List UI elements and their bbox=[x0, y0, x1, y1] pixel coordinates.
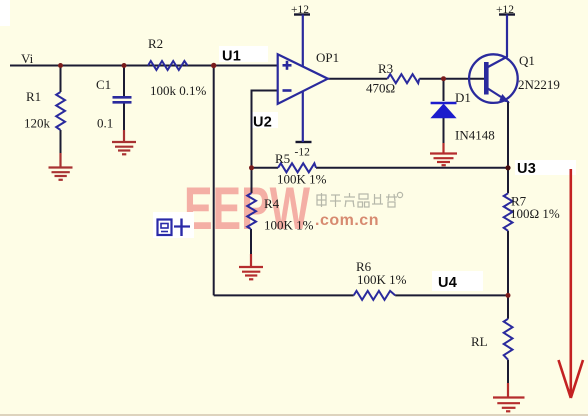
junction C1 bbox=[122, 63, 127, 68]
wire U3 to R7 bbox=[507, 168, 509, 194]
wire op-amp inverting input bbox=[252, 91, 279, 169]
wire R3 to Q1 base bbox=[419, 78, 486, 80]
caption 图十 bbox=[158, 219, 191, 237]
wire D1 to ground bbox=[443, 118, 445, 146]
wire R5 to U3 bbox=[316, 167, 508, 169]
junction node U4 bbox=[506, 293, 511, 298]
svg-text:U1: U1 bbox=[222, 49, 241, 65]
wire op-amp output to R3 bbox=[328, 78, 388, 80]
watermark chinese text 电子产品世界 bbox=[317, 192, 403, 207]
white patch behind U4 bbox=[432, 271, 483, 291]
svg-text:R1: R1 bbox=[26, 89, 41, 104]
svg-text:U4: U4 bbox=[438, 275, 457, 291]
wire R7 to U4 junction bbox=[507, 231, 509, 296]
transistor Q1 bbox=[469, 53, 560, 103]
svg-text:470Ω: 470Ω bbox=[366, 81, 395, 96]
wire Vi input horizontal bbox=[10, 65, 278, 67]
junction D1/R3 bbox=[441, 76, 446, 81]
junction node U1 bbox=[211, 63, 216, 68]
svg-text:Q1: Q1 bbox=[519, 53, 535, 68]
capacitor C1 bbox=[96, 77, 132, 131]
svg-text:2N2219: 2N2219 bbox=[518, 77, 560, 92]
svg-text:0.1: 0.1 bbox=[97, 116, 113, 131]
svg-text:100k 0.1%: 100k 0.1% bbox=[150, 83, 207, 98]
wire RL to ground bbox=[507, 360, 509, 385]
svg-text:Vi: Vi bbox=[21, 51, 34, 66]
svg-text:IN4148: IN4148 bbox=[455, 128, 495, 143]
white patch top-left corner bbox=[0, 0, 10, 26]
wire D1 anode stub bbox=[443, 79, 445, 101]
svg-text:D1: D1 bbox=[455, 90, 471, 105]
power +12 op-amp bbox=[291, 4, 310, 66]
white patch behind U3 bbox=[515, 160, 576, 175]
white patch behind U2 bbox=[252, 112, 278, 128]
svg-text:R4: R4 bbox=[264, 196, 280, 211]
resistor R7 bbox=[504, 193, 560, 231]
wire R1 bottom bbox=[60, 130, 62, 154]
diode D1 bbox=[431, 90, 495, 143]
op-amp OP1 bbox=[278, 50, 339, 104]
current direction arrow bbox=[559, 169, 584, 398]
bottom edge strip bbox=[0, 414, 588, 416]
power +12 Q1 bbox=[496, 4, 515, 57]
power -12 op-amp bbox=[295, 91, 312, 159]
white patch behind U1 bbox=[219, 46, 268, 62]
resistor R6 bbox=[354, 259, 407, 300]
svg-text:.com.cn: .com.cn bbox=[315, 212, 379, 229]
wire U4 to RL bbox=[507, 295, 509, 318]
svg-text:RL: RL bbox=[471, 334, 488, 349]
svg-text:R2: R2 bbox=[148, 36, 163, 51]
svg-text:-12: -12 bbox=[295, 147, 311, 159]
ground RL bbox=[493, 383, 525, 411]
watermark .com.cn bbox=[315, 212, 379, 229]
junction Vi/R1 bbox=[58, 63, 63, 68]
resistor R2 bbox=[148, 36, 207, 98]
ground R1 bbox=[49, 153, 73, 180]
svg-text:U2: U2 bbox=[253, 115, 272, 131]
junction node U2/R5 bbox=[249, 165, 254, 170]
svg-text:C1: C1 bbox=[96, 77, 111, 92]
wire R1 top bbox=[60, 66, 62, 93]
white patch behind caption bbox=[153, 212, 194, 238]
wire C1 top bbox=[123, 66, 125, 97]
svg-text:100K 1%: 100K 1% bbox=[357, 272, 407, 287]
ground C1 bbox=[112, 130, 136, 154]
ground R4 bbox=[239, 254, 263, 279]
wire R4 top stub bbox=[251, 168, 253, 193]
svg-text:100K 1%: 100K 1% bbox=[264, 218, 314, 233]
svg-text:120k: 120k bbox=[24, 116, 51, 131]
resistor RL bbox=[471, 319, 513, 360]
wire C1 bottom bbox=[123, 103, 125, 133]
wire U1 vertical feedback left bbox=[213, 66, 215, 296]
svg-text:100Ω 1%: 100Ω 1% bbox=[510, 206, 560, 221]
junction node U3 bbox=[505, 165, 510, 170]
svg-text:100K 1%: 100K 1% bbox=[277, 172, 327, 187]
wire R4 bottom bbox=[250, 229, 252, 256]
resistor R3 bbox=[366, 61, 419, 96]
ground D1 bbox=[430, 143, 457, 165]
wire bottom left segment bbox=[214, 294, 354, 296]
resistor R4 bbox=[247, 193, 313, 233]
svg-text:R5: R5 bbox=[275, 151, 290, 166]
svg-text:U3: U3 bbox=[517, 161, 536, 177]
svg-text:R3: R3 bbox=[378, 61, 393, 76]
watermark EEPW logo bbox=[184, 175, 310, 242]
resistor R1 bbox=[24, 89, 65, 131]
wire bottom right segment bbox=[395, 294, 508, 296]
wire Q1 emitter to U3 bbox=[507, 101, 509, 168]
svg-text:OP1: OP1 bbox=[316, 50, 339, 65]
resistor R5 bbox=[275, 151, 327, 187]
wire R5 left bbox=[252, 167, 279, 169]
